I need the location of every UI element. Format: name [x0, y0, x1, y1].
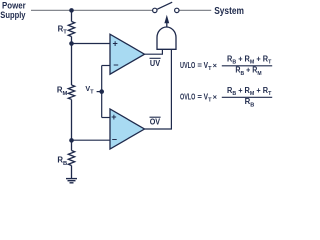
svg-text:T: T — [208, 98, 212, 104]
svg-text:=: = — [197, 61, 202, 70]
wire: R_M to node B — [71, 100, 73, 141]
wire: node A down to R_M — [71, 44, 73, 86]
formula OVLO — [180, 86, 272, 108]
label UV (overline) — [150, 57, 161, 59]
op-amp OV comparator — [110, 109, 145, 149]
wire: R_T to node A — [71, 37, 73, 44]
svg-text:OVLO: OVLO — [180, 92, 195, 101]
wire: V_T tick — [97, 91, 102, 93]
node B (tap OV-) — [69, 138, 74, 143]
svg-text:+: + — [113, 38, 118, 48]
formula UVLO — [180, 54, 272, 76]
wire: UV output to AND gate left input — [145, 49, 163, 54]
AND gate U1 — [157, 27, 176, 49]
arrow to switch — [166, 22, 168, 28]
svg-text:System: System — [214, 6, 244, 17]
switch S1 — [153, 8, 157, 12]
svg-text:×: × — [213, 92, 217, 101]
resistor R_B — [68, 151, 74, 166]
wire: V_T to UV - input — [102, 65, 110, 67]
svg-text:OV: OV — [150, 117, 161, 127]
wire: power rail left (gray) — [31, 9, 152, 11]
wire: V_T vertical (to UV- and OV+) — [101, 66, 103, 118]
label OV (overline) — [150, 116, 161, 118]
svg-text:−: − — [113, 60, 118, 70]
svg-text:×: × — [213, 61, 217, 70]
wire: node B down to R_B — [71, 140, 73, 150]
svg-text:Supply: Supply — [0, 10, 25, 20]
wire: rail dot to R_T — [71, 10, 73, 21]
wire: node B to OV - input — [72, 139, 111, 141]
svg-text:−: − — [112, 134, 117, 144]
svg-text:+: + — [111, 112, 116, 122]
op-amp UV comparator — [110, 34, 145, 74]
resistor R_M — [68, 85, 74, 99]
svg-text:=: = — [197, 92, 202, 101]
svg-text:UVLO: UVLO — [180, 61, 195, 70]
ground — [66, 178, 77, 180]
wire: power rail right to system (gray) — [179, 9, 211, 11]
svg-text:Power: Power — [2, 1, 26, 11]
resistor R_T — [68, 22, 74, 37]
node A (tap UV+) — [69, 41, 74, 46]
svg-text:T: T — [208, 66, 212, 72]
svg-text:UV: UV — [150, 58, 160, 68]
wire: V_T to OV + input — [102, 117, 110, 119]
wire: R_B to ground — [71, 166, 73, 179]
node V_T — [99, 89, 104, 94]
wire: OV output to AND gate right input — [145, 49, 172, 129]
wire: node A to UV + input — [72, 43, 111, 45]
node: junction dot on power rail — [69, 8, 74, 13]
